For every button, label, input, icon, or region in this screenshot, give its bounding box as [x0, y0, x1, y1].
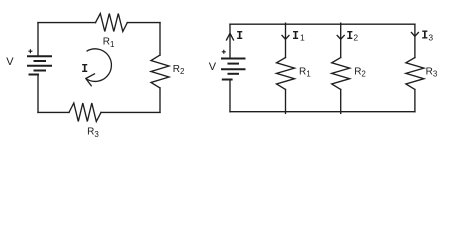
svg-text:I: I	[236, 30, 243, 43]
resistor R1 (series circuit, top)	[96, 14, 128, 32]
svg-text:V: V	[6, 56, 14, 68]
wire: left circuit bottom wire right segment	[101, 111, 160, 113]
wire: left circuit right side lower	[159, 88, 161, 112]
svg-text:R2: R2	[354, 67, 366, 79]
wire: branch 2 upper lead	[340, 23, 342, 57]
plus sign of left battery	[28, 49, 32, 53]
svg-text:R3: R3	[87, 127, 99, 139]
wire: branch 3 upper lead (right edge)	[414, 24, 416, 57]
svg-text:1: 1	[300, 32, 305, 42]
battery plate short 1	[34, 60, 47, 62]
current loop arc with arrow (series circuit)	[86, 49, 112, 86]
svg-text:R3: R3	[426, 67, 438, 79]
battery plate short 2	[34, 70, 47, 72]
wire: parallel circuit bottom bus	[230, 111, 415, 113]
battery V (series circuit)	[27, 56, 52, 74]
svg-text:I: I	[81, 63, 88, 76]
resistor R3 (series circuit, bottom)	[69, 103, 101, 122]
wire: parallel circuit left side upper (battery top lead)	[229, 24, 231, 58]
svg-text:R1: R1	[103, 37, 115, 49]
wire: branch 1 upper lead	[285, 23, 287, 57]
wire: parallel circuit top bus	[230, 23, 415, 25]
wire: left circuit bottom wire left segment	[38, 111, 69, 113]
wire: left circuit right side upper	[159, 23, 161, 55]
RIGHT (parallel) CIRCUIT	[227, 23, 424, 113]
battery plate long 1	[221, 58, 246, 60]
battery plate short bottom	[222, 79, 233, 81]
plus sign of right battery	[222, 50, 226, 54]
svg-text:R1: R1	[299, 67, 311, 79]
arrowhead down, current I3	[411, 33, 418, 37]
wire: left circuit top wire left segment	[38, 22, 96, 24]
wire: branch 1 lower lead	[285, 90, 287, 114]
resistor R1 (parallel circuit)	[277, 58, 295, 90]
wire: left circuit left side lower	[37, 75, 39, 113]
battery plate short 2	[228, 73, 240, 75]
arrowhead down, current I1	[282, 35, 289, 39]
resistor R3 (parallel circuit)	[406, 58, 424, 90]
battery plate short bottom	[29, 74, 40, 76]
battery plate short 1	[228, 63, 240, 65]
svg-text:I: I	[421, 30, 428, 43]
arrowhead down, current I2	[337, 35, 344, 39]
wire: left circuit top wire right segment	[127, 22, 160, 24]
wire: branch 2 lower lead	[340, 90, 342, 114]
wire: left circuit left side upper	[37, 23, 39, 57]
battery plate long 1	[27, 55, 52, 57]
svg-text:2: 2	[353, 32, 358, 42]
wire: branch 3 lower lead	[414, 90, 416, 112]
svg-text:V: V	[209, 61, 217, 73]
battery plate long 2	[221, 68, 246, 70]
resistor R2 (series circuit, right side)	[151, 55, 169, 88]
resistor R2 (parallel circuit)	[332, 58, 350, 90]
svg-text:3: 3	[428, 32, 433, 42]
wire: parallel circuit left side lower (battery bottom lead)	[229, 80, 231, 112]
battery V (parallel circuit)	[221, 59, 246, 80]
battery plate long 2	[27, 65, 52, 67]
svg-text:I: I	[346, 30, 353, 43]
svg-text:R2: R2	[173, 64, 185, 76]
arrowhead up, current I	[227, 33, 234, 40]
svg-text:I: I	[292, 30, 299, 43]
